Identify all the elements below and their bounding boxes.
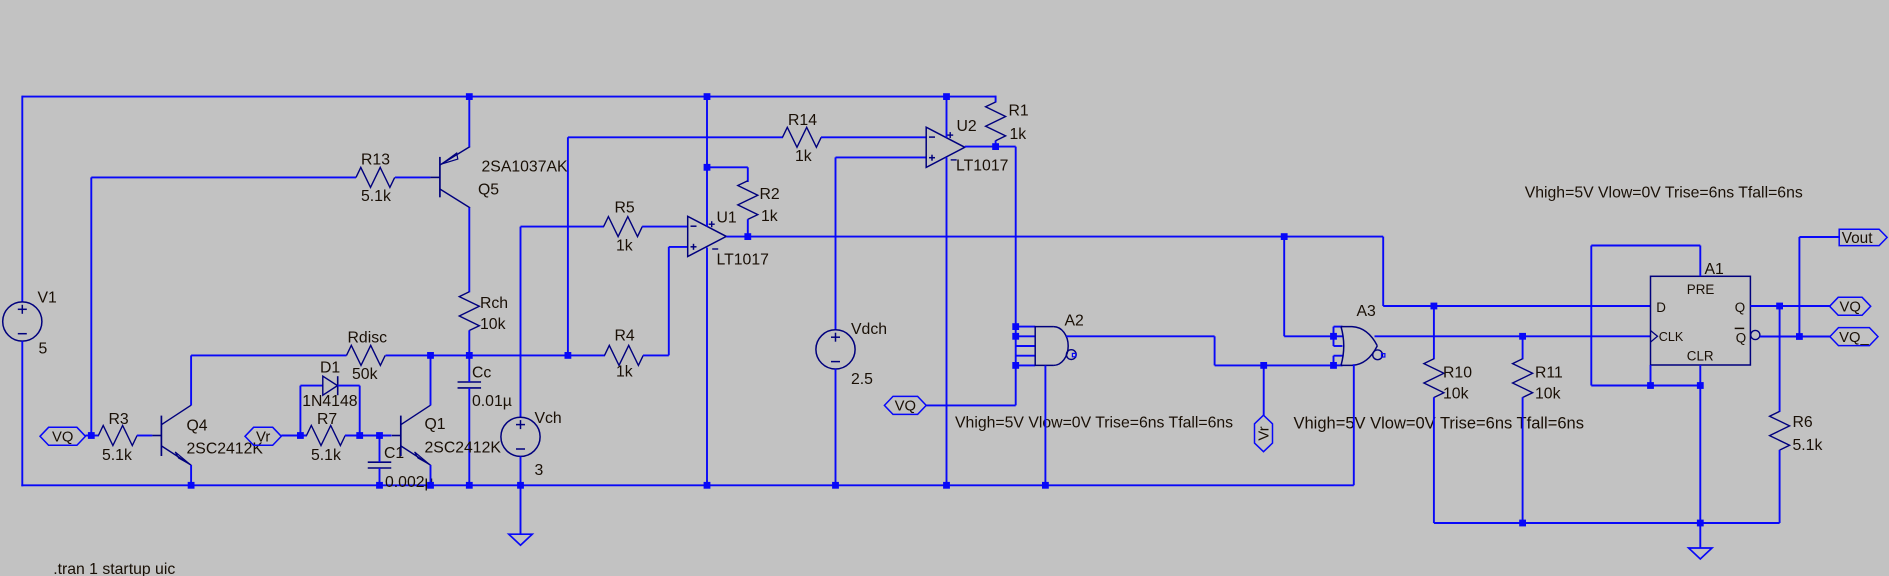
wire R13 left: [91, 176, 356, 178]
wire D1 cathode branch: [338, 385, 360, 387]
wire U2 plus input line: [836, 156, 927, 158]
svg-text:Rdisc: Rdisc: [348, 330, 388, 347]
resistor R5: [604, 217, 643, 237]
svg-text:VQ: VQ: [895, 399, 916, 415]
svg-text:D1: D1: [320, 360, 340, 377]
transistor Q5 2SA1037AK: [430, 176, 440, 178]
svg-text:1k: 1k: [1010, 126, 1027, 143]
wire left rail down to V1: [21, 96, 23, 302]
svg-text:Cc: Cc: [472, 365, 491, 382]
svg-text:CLK: CLK: [1659, 330, 1684, 344]
gate A2 unconnected pin marker: [1072, 353, 1075, 356]
svg-text:V1: V1: [38, 290, 58, 307]
wire A3 output to CLK: [1375, 335, 1651, 337]
wire R2 top lead: [747, 167, 749, 182]
flag Vout: [1839, 229, 1887, 245]
wire R13 to Q5 base: [395, 176, 430, 178]
svg-text:LT1017: LT1017: [956, 158, 1008, 175]
wire Qbar output: [1760, 336, 1831, 338]
wire Q5 emitter to top rail: [468, 97, 470, 147]
wire VQ to A2 input column: [926, 404, 1016, 406]
op-amp U1 LT1017: [688, 216, 727, 256]
gate A3 complementary output bubble: [1373, 350, 1383, 360]
or gate A3 input stubs: [1334, 326, 1343, 328]
svg-text:1k: 1k: [795, 148, 812, 165]
and gate A2 body: [1035, 327, 1053, 366]
wire VQ to R3: [86, 435, 99, 437]
capacitor Cc: [458, 381, 482, 383]
voltage source Vch: [501, 417, 540, 456]
svg-text:R1: R1: [1009, 103, 1029, 120]
wire C1 bottom lead: [379, 468, 381, 485]
transistor Q1 2SC2412K: [392, 435, 401, 437]
diode D1 1N4148: [323, 376, 338, 395]
svg-text:VQ: VQ: [1839, 300, 1860, 316]
svg-text:5: 5: [39, 341, 48, 358]
flip-flop Qbar bubble: [1751, 330, 1760, 339]
voltage source Vdch: [816, 330, 855, 369]
svg-text:1k: 1k: [616, 238, 633, 255]
wire A3 input column vertical lower: [1333, 356, 1335, 366]
svg-text:R5: R5: [615, 200, 635, 217]
wire Cc top lead: [468, 355, 470, 382]
flag VQ left: [40, 427, 86, 445]
resistor R14: [783, 127, 822, 147]
svg-text:U1: U1: [717, 210, 737, 227]
junction dots: [466, 93, 473, 100]
wire flip-flop bottom-left pin: [1650, 365, 1652, 386]
wire Vout horizontal: [1799, 236, 1840, 238]
svg-text:Q5: Q5: [478, 182, 499, 199]
svg-text:1k: 1k: [761, 208, 778, 225]
wire Q output: [1750, 305, 1831, 307]
wire R3 to Q4 base: [137, 435, 153, 437]
wire C1 top lead: [379, 436, 381, 463]
wire R2 branch horizontal: [707, 166, 748, 168]
svg-text:Q: Q: [1736, 330, 1746, 345]
wire vertical x568 from R14 line to R4: [567, 137, 569, 355]
wire R14 to U2 minus input: [821, 136, 926, 138]
flag VQ_ right: [1830, 328, 1878, 346]
or gate A3 body: [1341, 327, 1344, 366]
wire U2 Vplus supply from rail: [946, 97, 948, 138]
gate A3 unconnected pin marker: [1382, 354, 1385, 357]
wire Vdch bottom to rail: [835, 369, 837, 486]
svg-text:Q1: Q1: [425, 416, 446, 433]
resistor R11 top lead: [1522, 336, 1524, 359]
wire CLR to lower rail: [1699, 365, 1701, 523]
svg-text:R13: R13: [361, 152, 390, 169]
svg-text:10k: 10k: [480, 316, 506, 333]
wire R2 bottom lead: [747, 219, 749, 236]
wire Vch top to R5 corner: [520, 227, 522, 418]
transistor Q4 2SC2412K: [152, 435, 161, 437]
svg-text:1k: 1k: [616, 364, 633, 381]
wire Q5 collector to Rch: [468, 208, 470, 293]
svg-text:.tran 1 startup uic: .tran 1 startup uic: [53, 561, 175, 576]
resistor R6: [1770, 411, 1790, 450]
wire Q4 emitter to rail: [190, 465, 192, 485]
wire A3 input column vertical upper: [1333, 327, 1335, 346]
wire Q1 emitter to rail: [430, 465, 432, 485]
resistor Rch: [459, 292, 479, 331]
resistor R13: [356, 167, 395, 187]
capacitor C1: [368, 461, 392, 463]
svg-text:Q4: Q4: [187, 418, 208, 435]
svg-text:Rch: Rch: [480, 295, 508, 312]
svg-text:A1: A1: [1705, 261, 1725, 278]
svg-text:50k: 50k: [352, 366, 378, 383]
svg-text:LT1017: LT1017: [717, 252, 769, 269]
wire Q1 collector up to node: [430, 355, 432, 405]
flag Vr vertical: [1255, 415, 1273, 452]
svg-text:Vout: Vout: [1842, 230, 1874, 247]
svg-text:10k: 10k: [1535, 386, 1561, 403]
svg-text:Vr: Vr: [256, 430, 270, 446]
wire Rch bottom to node: [468, 330, 470, 355]
resistor Rdisc: [347, 345, 386, 365]
svg-text:PRE: PRE: [1687, 282, 1715, 297]
wire V1 bottom to ground rail: [21, 341, 23, 486]
ground under Vch: [509, 534, 532, 545]
svg-text:Vch: Vch: [535, 410, 562, 427]
resistor R10: [1424, 359, 1444, 398]
resistor R2: [738, 181, 758, 220]
wire Vr to R7: [281, 435, 307, 437]
wire R13 branch vertical: [90, 177, 92, 435]
wire Vdch top: [835, 157, 837, 330]
wire U1 output to x1383: [726, 236, 1383, 238]
flag VQ at A2: [884, 396, 926, 414]
svg-text:Vhigh=5V Vlow=0V Trise=6ns Tfa: Vhigh=5V Vlow=0V Trise=6ns Tfall=6ns: [1525, 185, 1803, 202]
wire R1 top corner: [995, 96, 997, 103]
wire A2 common pin to rail: [1044, 365, 1046, 485]
resistor R1: [986, 102, 1006, 141]
flag VQ right: [1830, 297, 1871, 315]
svg-text:Vhigh=5V Vlow=0V Trise=6ns Tfa: Vhigh=5V Vlow=0V Trise=6ns Tfall=6ns: [1294, 415, 1584, 433]
flip-flop clk wedge: [1651, 331, 1658, 343]
resistor R4: [605, 345, 644, 365]
wire PRE loop: [1699, 246, 1701, 277]
wire Vr branch down from A2 output line: [1263, 365, 1265, 415]
svg-text:D: D: [1656, 300, 1666, 315]
svg-text:5.1k: 5.1k: [102, 447, 132, 464]
svg-text:R3: R3: [109, 411, 129, 428]
wire Rdisc right to R4 node: [386, 354, 568, 356]
svg-text:R2: R2: [760, 186, 780, 203]
ground under flip-flop rail: [1699, 523, 1701, 548]
svg-text:1N4148: 1N4148: [302, 393, 358, 410]
wire D flip-flop input line: [1382, 237, 1384, 306]
svg-text:A3: A3: [1357, 303, 1377, 320]
svg-text:3: 3: [535, 462, 544, 479]
svg-text:R14: R14: [788, 112, 817, 129]
wire R10 bottom to lower rail: [1433, 397, 1435, 523]
flip-flop A1 box: [1651, 276, 1751, 365]
wire U1 out branch down to A3: [1283, 237, 1285, 337]
wire U1 Vminus supply to rail: [706, 248, 708, 486]
wire A2 output: [1066, 335, 1214, 337]
svg-text:5.1k: 5.1k: [361, 188, 391, 205]
svg-text:A2: A2: [1065, 313, 1084, 330]
resistor R11: [1513, 359, 1533, 398]
wire A3 common pin down to rail end: [1353, 364, 1355, 485]
wire R7 to Q1 base: [345, 435, 392, 437]
wire U2 Vminus supply down to rail: [946, 157, 948, 485]
nand gate A2 input stubs: [1016, 326, 1035, 328]
wire R5 left: [521, 226, 605, 228]
wire discharge line y355: [191, 354, 346, 356]
wire R6 top: [1779, 306, 1781, 412]
resistor R3: [98, 426, 137, 446]
wire lower rail: [1434, 522, 1780, 524]
gate A2 complementary output bubble: [1066, 350, 1076, 360]
wire R5 to U1 minus input: [642, 226, 688, 228]
svg-text:Vdch: Vdch: [851, 321, 887, 338]
voltage source V1: [3, 302, 42, 341]
svg-text:R7: R7: [317, 411, 337, 428]
resistor R7: [307, 426, 346, 446]
svg-text:2.5: 2.5: [851, 371, 873, 388]
svg-text:VQ_: VQ_: [1839, 330, 1869, 346]
svg-text:R6: R6: [1793, 414, 1813, 431]
wire Q4 collector up: [190, 355, 192, 405]
flag Vr left: [245, 427, 281, 445]
op-amp U2 LT1017: [926, 127, 965, 167]
svg-text:R11: R11: [1535, 365, 1563, 382]
svg-text:R10: R10: [1443, 365, 1472, 382]
svg-text:0.01µ: 0.01µ: [472, 393, 512, 410]
wire R6 bottom to lower rail: [1779, 450, 1781, 523]
wire Cc bottom lead: [468, 388, 470, 485]
svg-text:Vr: Vr: [1257, 426, 1273, 440]
svg-text:5.1k: 5.1k: [1793, 437, 1823, 454]
wire D1 anode branch: [299, 386, 301, 436]
wire bottom ground rail: [21, 484, 1354, 486]
wire top supply rail: [22, 96, 995, 98]
wire R4 right to U1 plus input: [643, 354, 669, 356]
svg-text:2SC2412K: 2SC2412K: [425, 439, 502, 456]
svg-text:Vhigh=5V Vlow=0V Trise=6ns Tfa: Vhigh=5V Vlow=0V Trise=6ns Tfall=6ns: [955, 415, 1233, 432]
resistor R10 top lead: [1433, 306, 1435, 359]
wire R4 left: [568, 354, 605, 356]
wire Vout branch vertical: [1798, 237, 1800, 337]
svg-text:VQ: VQ: [52, 430, 73, 446]
svg-text:0.002µ: 0.002µ: [385, 474, 434, 491]
svg-text:5.1k: 5.1k: [311, 447, 341, 464]
svg-text:R4: R4: [615, 328, 635, 345]
wire U1 Vplus supply from top rail: [706, 97, 708, 227]
svg-text:2SA1037AK: 2SA1037AK: [482, 159, 569, 176]
svg-text:Q: Q: [1735, 300, 1745, 315]
wire U2 output: [965, 146, 1016, 148]
svg-text:10k: 10k: [1443, 386, 1469, 403]
wire R14 line left: [568, 136, 783, 138]
wire Vch bottom through rail: [520, 456, 522, 534]
svg-text:CLR: CLR: [1687, 349, 1714, 364]
wire U2 output down to A2 inputs: [1015, 147, 1017, 406]
wire R11 bottom to lower rail: [1522, 397, 1524, 523]
wire R1 bottom lead: [995, 141, 997, 147]
svg-text:U2: U2: [957, 118, 977, 135]
